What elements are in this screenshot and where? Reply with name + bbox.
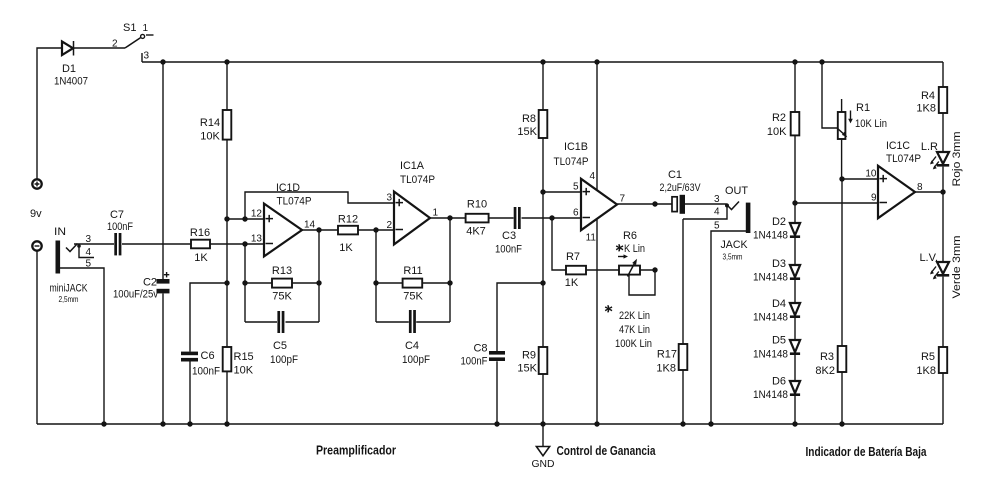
svg-text:15K: 15K (517, 126, 537, 138)
wire R7 branch from pin 6 (552, 218, 619, 270)
svg-text:1N4148: 1N4148 (753, 230, 788, 242)
svg-text:Preamplificador: Preamplificador (316, 444, 396, 458)
svg-text:10K Lin: 10K Lin (855, 118, 887, 130)
wire IC1D output feedback vertical (318, 230, 320, 322)
svg-text:3,5mm: 3,5mm (723, 252, 743, 262)
svg-text:R13: R13 (272, 265, 292, 277)
wire R11 feedback line (376, 282, 450, 284)
svg-text:K Lin: K Lin (624, 243, 645, 255)
wire R17 branch to ground (682, 219, 684, 424)
resistor R8 15K (517, 110, 547, 138)
svg-text:1N4148: 1N4148 (753, 389, 788, 401)
svg-text:R12: R12 (338, 214, 358, 226)
svg-text:9: 9 (871, 193, 877, 204)
svg-text:C6: C6 (201, 350, 215, 362)
wire C8 branch to R8 R9 node (497, 283, 543, 424)
svg-text:100nF: 100nF (192, 366, 220, 378)
wire R13 feedback line (245, 282, 319, 284)
resistor R12 1K (338, 214, 358, 255)
svg-text:100uF/25v: 100uF/25v (113, 289, 158, 301)
svg-text:15K: 15K (517, 363, 537, 375)
battery positive terminal (32, 179, 41, 188)
svg-text:10K: 10K (234, 365, 254, 377)
resistor R9 15K (517, 347, 547, 375)
svg-text:C4: C4 (405, 340, 419, 352)
svg-text:4: 4 (714, 207, 720, 218)
wire IC1A output feedback vertical (449, 218, 451, 322)
resistor R10 4K7 (466, 199, 489, 238)
svg-text:C8: C8 (473, 343, 487, 355)
svg-text:R16: R16 (190, 227, 210, 239)
wire C5 feedback line (245, 321, 319, 323)
wire IN pin 4 bracket (79, 246, 94, 258)
svg-text:IC1D: IC1D (276, 182, 300, 194)
capacitor C4 100pF (402, 310, 430, 366)
svg-text:S1: S1 (123, 22, 136, 34)
svg-text:4K7: 4K7 (466, 226, 486, 238)
svg-text:TL074P: TL074P (886, 153, 921, 165)
svg-text:1: 1 (433, 208, 439, 219)
resistor R4 1K8 (916, 87, 947, 115)
wire OUT jack pin 4 bracket to R17 (683, 204, 727, 219)
svg-text:D4: D4 (772, 298, 786, 310)
svg-text:1K: 1K (194, 252, 208, 264)
wire C2 branch from +9V rail to ground (162, 62, 164, 424)
wire battery minus down to ground rail (36, 251, 38, 424)
svg-text:100nF: 100nF (495, 244, 522, 256)
diode D3 1N4148 (753, 258, 800, 284)
svg-text:22K Lin: 22K Lin (619, 310, 650, 322)
wire D1 cathode to switch S1 (74, 47, 126, 49)
svg-text:4: 4 (589, 171, 595, 182)
ground symbol GND (532, 424, 555, 470)
resistor R17 1K8 (656, 344, 687, 375)
wire C4 feedback line (376, 321, 450, 323)
wire R8 R9 bias divider vertical (542, 62, 544, 424)
svg-text:JACK: JACK (721, 239, 749, 251)
op-amp IC1C TL074P (865, 140, 923, 218)
svg-text:D2: D2 (772, 216, 786, 228)
svg-text:TL074P: TL074P (400, 174, 435, 186)
wire IC1D inverting feedback left vertical (244, 244, 246, 322)
svg-text:14: 14 (304, 220, 316, 231)
svg-text:2,5mm: 2,5mm (59, 294, 79, 304)
svg-text:R1: R1 (856, 102, 870, 114)
wire S1 pin3 down to +9V rail (141, 53, 143, 62)
LED L.R Rojo 3mm (921, 132, 963, 187)
wire IC1A output to R10 to C3 to IC1B pin 6 (430, 217, 581, 219)
svg-text:12: 12 (251, 209, 263, 220)
capacitor C5 100pF (270, 311, 298, 366)
wire Vref to pin 12 (227, 218, 264, 220)
wire IC1A inverting feedback left vertical (375, 230, 377, 322)
wire R4 LED R5 chain vertical (942, 62, 944, 424)
wire R14 R15 bias divider vertical (226, 62, 228, 424)
resistor R16 1K (190, 227, 210, 264)
diode D4 1N4148 (753, 298, 800, 324)
svg-text:1N4148: 1N4148 (753, 312, 788, 324)
resistor R2 10K (767, 112, 799, 138)
LED L.V. Verde 3mm (919, 236, 963, 299)
svg-text:11: 11 (586, 233, 597, 244)
wire R6 wiper loop (629, 270, 655, 295)
resistor R15 10K (223, 347, 254, 377)
svg-text:13: 13 (251, 234, 263, 245)
potentiometer R6 K Lin (616, 230, 645, 277)
svg-text:1K8: 1K8 (916, 103, 936, 115)
svg-text:1N4148: 1N4148 (753, 349, 788, 361)
svg-text:5: 5 (573, 182, 579, 193)
svg-text:Verde 3mm: Verde 3mm (951, 236, 963, 299)
wire IN pin 5 sleeve to ground (60, 268, 104, 424)
svg-text:C3: C3 (502, 230, 516, 242)
svg-text:1N4007: 1N4007 (54, 76, 88, 88)
diode D2 1N4148 (753, 216, 800, 242)
capacitor C1 2,2uF/63V electrolytic (660, 169, 702, 214)
svg-text:C1: C1 (668, 169, 682, 181)
wire Vref distribution to IC1A pin 3 (245, 192, 394, 219)
svg-text:R3: R3 (820, 351, 834, 363)
svg-text:miniJACK: miniJACK (50, 283, 89, 295)
wire IN tip (pin 3) line to C7 and R16 and pin 13 (74, 243, 264, 245)
svg-text:IC1C: IC1C (886, 140, 910, 152)
svg-text:3: 3 (144, 51, 150, 62)
svg-text:75K: 75K (272, 291, 292, 303)
svg-text:R5: R5 (921, 351, 935, 363)
svg-text:R15: R15 (234, 351, 254, 363)
svg-text:GND: GND (532, 459, 555, 470)
svg-text:5: 5 (714, 221, 720, 232)
resistor R13 75K (272, 265, 293, 303)
svg-text:D1: D1 (62, 63, 76, 75)
wire IC1B pin 11 power to ground (596, 219, 598, 424)
svg-text:R17: R17 (657, 349, 677, 361)
label pot options 22K 47K 100K Lin (605, 305, 652, 350)
capacitor C7 100nF (107, 209, 133, 255)
svg-text:100pF: 100pF (402, 354, 430, 366)
wire IC1C pin 9 input (795, 202, 878, 204)
capacitor C2 100uF/25v electrolytic (113, 272, 170, 301)
diode D6 1N4148 (753, 376, 800, 402)
svg-text:1K: 1K (339, 242, 353, 254)
op-amp IC1D TL074P (251, 182, 316, 256)
diode D5 1N4148 (753, 335, 800, 361)
svg-text:1N4148: 1N4148 (753, 272, 788, 284)
svg-text:3: 3 (386, 193, 392, 204)
svg-text:75K: 75K (403, 291, 423, 303)
diode D1 1N4007 (54, 41, 88, 88)
input connector IN miniJACK 2,5mm (50, 226, 92, 304)
op-amp IC1A TL074P (386, 160, 438, 244)
svg-text:OUT: OUT (725, 185, 748, 197)
svg-text:8K2: 8K2 (815, 365, 835, 377)
wire R1 wiper from rail (822, 62, 837, 128)
wire R3 branch to ground (841, 179, 843, 424)
svg-text:1K: 1K (565, 277, 579, 289)
svg-text:100nF: 100nF (107, 221, 133, 233)
svg-text:7: 7 (620, 194, 626, 205)
svg-text:L.V.: L.V. (919, 252, 938, 264)
svg-text:1K8: 1K8 (916, 365, 936, 377)
svg-text:10: 10 (865, 169, 877, 180)
capacitor C6 100nF (181, 350, 220, 378)
svg-text:R7: R7 (566, 251, 580, 263)
resistor R14 10K (200, 110, 231, 143)
svg-text:D3: D3 (772, 258, 786, 270)
switch S1 (112, 22, 154, 62)
resistor R11 75K (403, 265, 424, 303)
svg-text:4: 4 (86, 247, 92, 258)
wire R2 and diode chain vertical (794, 62, 796, 424)
svg-text:100K Lin: 100K Lin (615, 338, 652, 350)
svg-text:2: 2 (112, 39, 118, 50)
svg-text:C7: C7 (110, 209, 124, 221)
svg-text:10K: 10K (767, 126, 787, 138)
svg-text:L.R: L.R (921, 141, 938, 153)
svg-text:R11: R11 (403, 265, 422, 277)
svg-text:IN: IN (54, 226, 66, 238)
wire IC1B output to C1 to OUT jack (617, 203, 728, 205)
capacitor C8 100nF (461, 343, 506, 368)
wire C6 branch to bias node (190, 283, 227, 424)
svg-text:100pF: 100pF (270, 354, 298, 366)
resistor R3 8K2 (815, 346, 846, 377)
node IN pin4 junction (77, 244, 81, 248)
svg-text:3: 3 (714, 194, 720, 205)
wire IC1B pin 5 input (543, 191, 581, 193)
svg-text:100nF: 100nF (461, 356, 488, 368)
wire IC1B pin 4 power from rail (596, 62, 598, 191)
svg-text:9v: 9v (30, 208, 42, 220)
op-amp IC1B TL074P (554, 141, 626, 244)
node junction dots (101, 59, 945, 426)
wire IC1C output to LED chain (915, 191, 943, 193)
svg-text:10K: 10K (200, 131, 220, 143)
svg-text:1K8: 1K8 (656, 363, 676, 375)
wire OUT jack sleeve pin 5 to ground (711, 231, 746, 424)
svg-text:2,2uF/63V: 2,2uF/63V (660, 182, 702, 194)
svg-text:IC1B: IC1B (564, 141, 588, 153)
capacitor C3 100nF (495, 207, 522, 256)
svg-text:Rojo 3mm: Rojo 3mm (951, 132, 963, 187)
svg-text:R14: R14 (200, 117, 220, 129)
svg-text:1: 1 (143, 23, 149, 34)
resistor R5 1K8 (916, 347, 947, 377)
svg-text:6: 6 (573, 208, 579, 219)
svg-text:R2: R2 (772, 112, 786, 124)
battery negative terminal (32, 241, 41, 250)
svg-text:C5: C5 (273, 340, 287, 352)
wire +9V top rail (142, 61, 943, 63)
svg-text:2: 2 (386, 220, 392, 231)
svg-text:R10: R10 (467, 199, 487, 211)
svg-text:47K Lin: 47K Lin (619, 324, 650, 336)
svg-text:TL074P: TL074P (554, 156, 589, 168)
resistor R7 1K (565, 251, 586, 289)
svg-text:R6: R6 (623, 230, 637, 242)
svg-text:D5: D5 (772, 335, 786, 347)
potentiometer R1 10K Lin (837, 99, 887, 179)
svg-text:D6: D6 (772, 376, 786, 388)
svg-text:IC1A: IC1A (400, 160, 425, 172)
svg-text:Indicador de Batería Baja: Indicador de Batería Baja (806, 445, 928, 459)
svg-text:R9: R9 (522, 350, 536, 362)
svg-text:Control de Ganancia: Control de Ganancia (557, 444, 657, 458)
wire ground bottom rail (37, 423, 943, 425)
svg-text:R8: R8 (522, 113, 536, 125)
svg-text:TL074P: TL074P (277, 196, 312, 208)
wire battery plus up to D1 anode (37, 48, 62, 179)
wire IC1C pin 10 input (842, 178, 878, 180)
svg-text:R4: R4 (921, 90, 935, 102)
svg-text:C2: C2 (143, 277, 157, 289)
output connector OUT JACK 3,5mm (714, 185, 750, 262)
wire IC1D output to R12 to IC1A pin 2 (302, 229, 394, 231)
